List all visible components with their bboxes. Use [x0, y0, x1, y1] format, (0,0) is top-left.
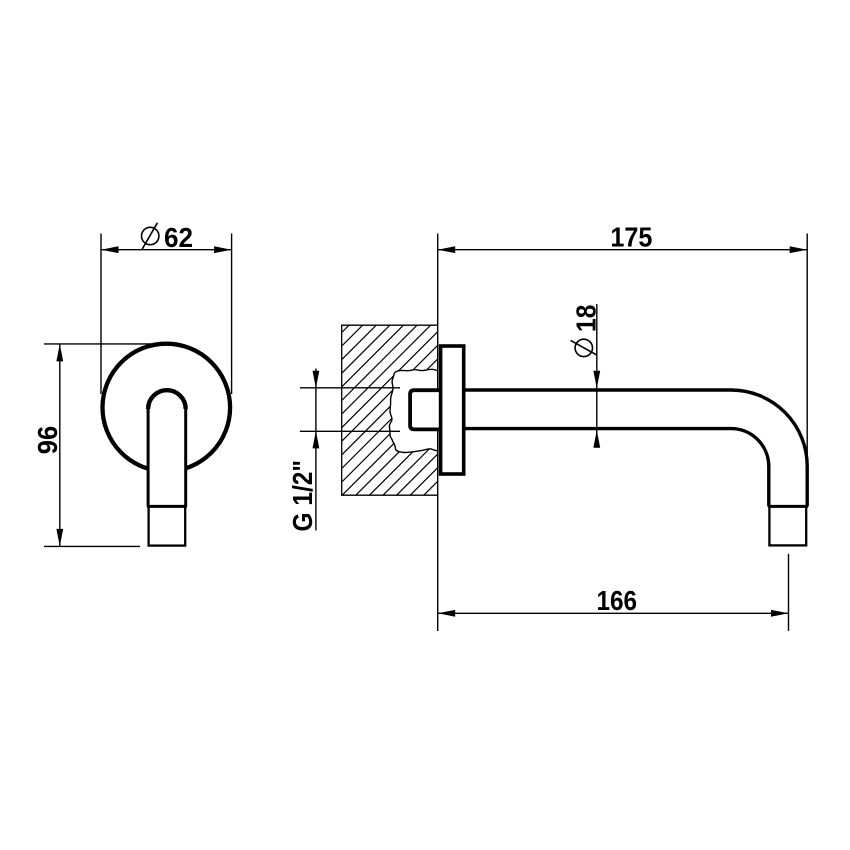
svg-text:96: 96 [32, 426, 63, 454]
svg-text:166: 166 [596, 585, 637, 616]
svg-text:18: 18 [570, 305, 601, 332]
svg-text:G 1/2": G 1/2" [287, 460, 318, 532]
svg-text:175: 175 [610, 221, 652, 252]
svg-text:62: 62 [164, 222, 193, 253]
